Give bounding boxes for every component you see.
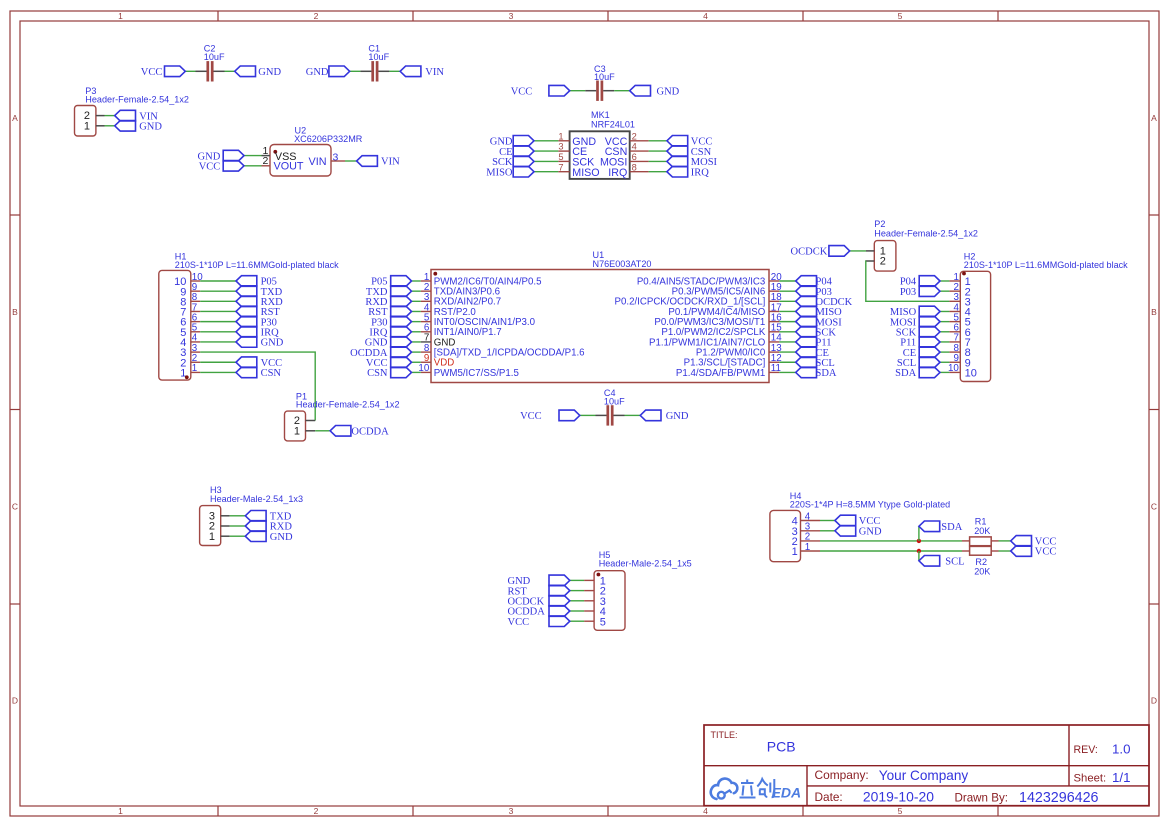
wire U1.12-SCL: [779, 361, 795, 363]
net flag VCC (U1 pin 9): [366, 357, 412, 369]
svg-text:TITLE:: TITLE:: [711, 730, 738, 740]
net flag GND (right of C2): [235, 66, 282, 78]
net flag OCDCK (H5 pin 3): [508, 596, 570, 608]
net flag VCC (left of C3): [511, 85, 570, 97]
svg-text:210S-1*10P L=11.6MMGold-plated: 210S-1*10P L=11.6MMGold-plated black: [175, 260, 339, 270]
svg-text:20K: 20K: [974, 567, 990, 577]
svg-text:10uF: 10uF: [594, 72, 615, 82]
svg-text:2019-10-20: 2019-10-20: [863, 789, 934, 805]
svg-text:GND: GND: [270, 532, 293, 543]
svg-text:SDA: SDA: [816, 368, 837, 379]
svg-text:Header-Female-2.54_1x2: Header-Female-2.54_1x2: [296, 400, 400, 410]
net flag CE (U1 pin 13): [796, 347, 829, 359]
wire VCC-U1.9: [412, 361, 421, 363]
net flag VCC (H5 pin 5): [508, 616, 570, 628]
svg-text:CSN: CSN: [367, 368, 388, 379]
wire H1-CSN: [200, 371, 236, 373]
svg-text:VCC: VCC: [141, 67, 163, 78]
connector P1 Header-Female-2.54_1x2: [285, 391, 400, 441]
svg-text:8: 8: [632, 162, 637, 172]
wire H1-RXD: [200, 300, 236, 302]
net flag VCC (left of C4): [520, 410, 580, 422]
svg-text:3: 3: [509, 806, 514, 816]
wire U1.11-SDA: [779, 371, 795, 373]
capacitor C2 10uF: [196, 44, 225, 82]
connector P3 Header-Female-2.54_1x2: [75, 86, 189, 136]
svg-text:2: 2: [314, 11, 319, 21]
wire SDA-H2.10: [940, 371, 949, 373]
net flag VCC (U2 pin 2): [199, 161, 244, 173]
wire H4.2-R1: [820, 540, 962, 542]
svg-text:Header-Male-2.54_1x3: Header-Male-2.54_1x3: [210, 494, 303, 504]
svg-text:B: B: [12, 307, 18, 317]
net flag RXD (U1 pin 3): [365, 296, 411, 308]
net flag VIN (P3 pin 2): [115, 110, 159, 122]
resistor R1 20K: [962, 517, 999, 546]
svg-text:D: D: [1151, 696, 1157, 706]
wire H3.3-TXD: [230, 515, 246, 517]
svg-text:10uF: 10uF: [204, 52, 225, 62]
wire MISO-H2.4: [940, 310, 949, 312]
net flag OCDCK (U1 pin 18): [796, 296, 853, 308]
capacitor C4 10uF: [596, 388, 626, 425]
wire VCC-C4: [580, 414, 596, 416]
net flag OCDCK (P2 pin 1): [791, 246, 850, 258]
wire U1.20-P04: [779, 280, 795, 282]
net flag P05 (H1 pin 10): [236, 276, 277, 288]
svg-text:C: C: [1151, 502, 1157, 512]
wire P05-U1.1: [412, 280, 421, 282]
net flag GND (left of C1): [306, 66, 350, 78]
wire IRQ-U1.6: [412, 331, 421, 333]
connector H3 Header-Male-2.54_1x3: [200, 485, 303, 545]
net flag P03 (U1 pin 19): [796, 286, 832, 298]
svg-text:Company:: Company:: [815, 768, 869, 782]
wire U1.15-SCK: [779, 331, 795, 333]
net flag GND (U1 pin 7): [365, 337, 412, 349]
net flag GND (U2 pin 1): [198, 150, 244, 162]
net flag P30 (H1 pin 6): [236, 316, 277, 328]
wire P3.2-VIN: [105, 115, 115, 117]
wire P3.1-GND: [105, 125, 115, 127]
net flag SDA (H2 pin 10): [895, 367, 940, 379]
wire U2.3-VIN: [345, 160, 357, 162]
net flag MISO (H2 pin 4): [890, 306, 940, 318]
svg-text:2: 2: [314, 806, 319, 816]
svg-text:1/1: 1/1: [1112, 770, 1131, 785]
junction (SDA node): [917, 539, 921, 543]
svg-text:IRQ: IRQ: [691, 167, 710, 178]
svg-text:P1.4/SDA/FB/PWM1: P1.4/SDA/FB/PWM1: [676, 368, 765, 379]
voltage regulator U2 XC6206P332MR: [262, 126, 363, 176]
net flag TXD (U1 pin 2): [366, 286, 412, 298]
net flag P05 (U1 pin 1): [371, 276, 411, 288]
net flag MOSI (MK1 pin 6): [667, 156, 718, 168]
wire R2-VCC: [999, 550, 1011, 552]
svg-text:[SDA]/TXD_1/ICPDA/OCDDA/P1.6: [SDA]/TXD_1/ICPDA/OCDDA/P1.6: [434, 347, 585, 358]
net flag VCC (MK1 pin 2): [667, 136, 712, 148]
svg-text:A: A: [1151, 113, 1157, 123]
net flag VCC (R1): [1011, 536, 1057, 548]
wire C4-GND: [625, 414, 641, 416]
resistor R2 20K: [962, 546, 999, 576]
svg-text:1423296426: 1423296426: [1019, 790, 1099, 806]
net flag CSN (MK1 pin 4): [667, 146, 712, 158]
wire H4.4-VCC: [820, 520, 835, 522]
svg-text:VIN: VIN: [425, 67, 444, 78]
svg-text:SDA: SDA: [895, 368, 916, 379]
net flag MOSI (U1 pin 16): [796, 316, 843, 328]
net flag CSN (H1 pin 1): [236, 367, 281, 379]
svg-text:1: 1: [118, 11, 123, 21]
svg-text:VIN: VIN: [381, 157, 400, 168]
svg-text:REV:: REV:: [1074, 744, 1098, 756]
net flag OCDDA (H5 pin 4): [508, 606, 570, 618]
svg-text:OCDDA: OCDDA: [351, 427, 389, 438]
svg-text:PWM5/IC7/SS/P1.5: PWM5/IC7/SS/P1.5: [434, 368, 519, 379]
net flag IRQ (MK1 pin 8): [667, 166, 709, 178]
wire P04-H2.1: [940, 280, 949, 282]
svg-text:B: B: [1151, 307, 1157, 317]
net flag GND (H1 pin 4): [236, 337, 284, 349]
net flag P04 (U1 pin 20): [796, 276, 833, 288]
wire CSN-U1.10: [412, 371, 421, 373]
wire GND-C1: [350, 70, 361, 72]
wire TXD-U1.2: [412, 290, 421, 292]
wire U1.13-CE: [779, 351, 795, 353]
wire VCC-C2: [185, 70, 195, 72]
svg-text:6: 6: [632, 152, 637, 162]
svg-text:P2: P2: [874, 219, 885, 229]
wire U1.16-MOSI: [779, 321, 795, 323]
svg-text:OCDCK: OCDCK: [791, 247, 828, 258]
svg-text:Header-Male-2.54_1x5: Header-Male-2.54_1x5: [599, 559, 692, 569]
net flag GND (right of C4): [640, 410, 689, 422]
net flag SCL (H2 pin 9): [897, 357, 940, 369]
svg-text:1: 1: [792, 546, 798, 558]
junction (SCL node): [917, 549, 921, 553]
wire MOSI-H2.5: [940, 321, 949, 323]
svg-text:1: 1: [118, 806, 123, 816]
wire VCC-U2.2: [244, 165, 262, 167]
connector H2 210S-1*10P: [948, 252, 1128, 382]
net flag CE (MK1 pin 3): [499, 146, 534, 158]
wire P03-H2.2: [940, 290, 949, 292]
net flag GND (MK1 pin 1): [490, 136, 534, 148]
wire OCDCK-H5.3: [570, 600, 584, 602]
net flag VIN (U2 pin 3): [357, 156, 400, 168]
MCU U1 N76E003AT20: [418, 250, 782, 382]
net flag SCK (U1 pin 15): [796, 326, 837, 338]
svg-text:GND: GND: [258, 67, 281, 78]
svg-text:A: A: [12, 113, 18, 123]
svg-text:NRF24L01: NRF24L01: [591, 120, 635, 130]
svg-text:Header-Female-2.54_1x2: Header-Female-2.54_1x2: [874, 229, 978, 239]
net flag TXD (H3 pin 3): [245, 511, 291, 523]
net flag RXD (H3 pin 2): [245, 521, 292, 533]
connector H1 210S-1*10P: [159, 251, 339, 380]
wire MK1.8-IRQ: [649, 171, 667, 173]
svg-text:3: 3: [558, 142, 563, 152]
svg-text:VCC: VCC: [511, 86, 533, 97]
wire GND-U1.7: [412, 341, 421, 343]
svg-text:2: 2: [880, 256, 886, 268]
svg-text:10: 10: [965, 368, 977, 380]
net flag MISO (U1 pin 17): [796, 306, 842, 318]
wire C2-GND: [225, 70, 235, 72]
svg-text:MISO: MISO: [572, 167, 599, 179]
net flag P04 (H2 pin 1): [900, 276, 940, 288]
wire P30-U1.5: [412, 321, 421, 323]
wire H1-GND: [200, 341, 236, 343]
wire GND-MK1.1: [534, 140, 558, 142]
net flag P03 (H2 pin 2): [900, 286, 940, 298]
svg-text:CSN: CSN: [261, 368, 282, 379]
svg-text:3: 3: [509, 11, 514, 21]
net flag VIN (right of C1): [400, 66, 444, 78]
net flag SDA (U1 pin 11): [796, 367, 837, 379]
wire CE-H2.8: [940, 351, 949, 353]
net flag SDA: [919, 521, 963, 533]
svg-text:R2: R2: [975, 557, 987, 567]
svg-text:4: 4: [703, 806, 708, 816]
svg-text:GND: GND: [306, 67, 329, 78]
svg-text:XC6206P332MR: XC6206P332MR: [294, 134, 363, 144]
svg-text:P03: P03: [900, 287, 916, 298]
net flag OCDDA (P1 pin 1): [330, 426, 389, 438]
svg-text:MK1: MK1: [591, 110, 610, 120]
wire H1-IRQ: [200, 331, 236, 333]
wire SDA branch: [918, 526, 920, 541]
wire RST-H5.2: [570, 590, 584, 592]
net flag TXD (H1 pin 9): [236, 286, 283, 298]
wire MK1.2-VCC: [649, 140, 667, 142]
svg-text:MISO: MISO: [486, 167, 513, 178]
svg-text:PCB: PCB: [767, 739, 796, 755]
wire VCC-H5.5: [570, 620, 584, 622]
wire SCK-H2.6: [940, 331, 949, 333]
net flag SCL: [919, 556, 965, 568]
wire SCK-MK1.5: [534, 160, 558, 162]
net flag SCL (U1 pin 12): [796, 357, 835, 369]
svg-text:Date:: Date:: [815, 790, 843, 804]
wire GND-U2.1: [244, 155, 262, 157]
net flag P11 (U1 pin 14): [796, 337, 832, 349]
svg-text:Header-Female-2.54_1x2: Header-Female-2.54_1x2: [85, 95, 189, 105]
net flag VCC (R2): [1011, 546, 1057, 558]
svg-text:1: 1: [558, 131, 563, 141]
svg-text:VCC: VCC: [199, 162, 221, 173]
net flag RST (U1 pin 4): [368, 306, 411, 318]
wire OCDDA-H5.4: [570, 610, 584, 612]
net flag GND (H5 pin 1): [508, 575, 570, 587]
svg-text:GND: GND: [139, 122, 162, 133]
svg-text:SCL: SCL: [945, 557, 964, 568]
svg-text:Drawn By:: Drawn By:: [955, 792, 1008, 805]
net flag P11 (H2 pin 7): [900, 337, 940, 349]
svg-text:SDA: SDA: [941, 522, 962, 533]
connector P2 Header-Female-2.54_1x2: [866, 219, 978, 271]
svg-text:1.0: 1.0: [1112, 742, 1131, 757]
wire OCDCK-P2.1: [850, 250, 866, 252]
svg-text:4: 4: [703, 11, 708, 21]
svg-text:GND: GND: [859, 527, 882, 538]
svg-text:210S-1*10P L=11.6MMGold-plated: 210S-1*10P L=11.6MMGold-plated black: [964, 260, 1128, 270]
wire H1-RST: [200, 310, 236, 312]
net flag SCK (H2 pin 6): [896, 326, 940, 338]
svg-text:N76E003AT20: N76E003AT20: [593, 259, 652, 269]
wire VCC-C3: [570, 90, 586, 92]
svg-text:5: 5: [898, 806, 903, 816]
svg-text:GND: GND: [261, 338, 284, 349]
wire U1.19-P03: [779, 290, 795, 292]
svg-text:7: 7: [558, 162, 563, 172]
wire MISO-MK1.7: [534, 171, 558, 173]
net flag GND (right of C3): [630, 85, 680, 97]
wire C3-GND: [614, 90, 630, 92]
net flag RST (H5 pin 2): [508, 585, 570, 597]
net flag MISO (MK1 pin 7): [486, 166, 534, 178]
svg-text:Sheet:: Sheet:: [1074, 773, 1107, 785]
svg-text:2: 2: [632, 131, 637, 141]
svg-text:EDA: EDA: [772, 785, 802, 801]
wire H1-P30: [200, 321, 236, 323]
wire H3.1-GND: [230, 535, 246, 537]
svg-text:4: 4: [632, 142, 637, 152]
net flag VCC (H1 pin 2): [236, 357, 282, 369]
svg-text:Your Company: Your Company: [879, 768, 969, 783]
capacitor C1 10uF: [360, 44, 389, 82]
svg-text:10uF: 10uF: [368, 52, 389, 62]
wire SCL branch: [918, 551, 920, 561]
net flag CE (H2 pin 8): [903, 347, 940, 359]
wire U1.18-OCDCK: [779, 300, 795, 302]
wire H1-P05: [200, 280, 236, 282]
wire H3.2-RXD: [230, 525, 246, 527]
RF module MK1 NRF24L01: [558, 110, 648, 179]
net flag IRQ (H1 pin 5): [236, 326, 279, 338]
svg-text:20K: 20K: [974, 526, 990, 536]
net flag RST (H1 pin 7): [236, 306, 280, 318]
svg-text:VIN: VIN: [309, 156, 327, 168]
net flag P30 (U1 pin 5): [371, 316, 411, 328]
wire RST-U1.4: [412, 310, 421, 312]
wire P1.1-OCDDA: [315, 430, 330, 432]
svg-text:1: 1: [84, 120, 90, 132]
wire SCL-H2.9: [940, 361, 949, 363]
svg-text:VCC: VCC: [1035, 547, 1057, 558]
wire P11-H2.7: [940, 341, 949, 343]
net flag MOSI (H2 pin 5): [890, 316, 940, 328]
net flag RXD (H1 pin 8): [236, 296, 283, 308]
svg-text:IRQ: IRQ: [608, 167, 627, 179]
svg-text:1: 1: [294, 426, 300, 438]
wire MK1.6-MOSI: [649, 160, 667, 162]
connector H5 Header-Male-2.54_1x5: [584, 550, 692, 630]
svg-text:5: 5: [898, 11, 903, 21]
svg-text:5: 5: [558, 152, 563, 162]
wire P2.2-H2.3: [866, 261, 950, 301]
net flag VCC (left of C2): [141, 66, 185, 78]
wire H1-TXD: [200, 290, 236, 292]
capacitor C3 10uF: [585, 64, 615, 101]
wire H1.3-P1.2: [200, 352, 315, 420]
net flag OCDDA (U1 pin 8): [350, 347, 411, 359]
wire H4.1-R2: [820, 550, 962, 552]
net flag IRQ (U1 pin 6): [369, 326, 411, 338]
wire R1-VCC: [999, 540, 1011, 542]
wire U1.17-MISO: [779, 310, 795, 312]
wire H1-VCC: [200, 361, 236, 363]
net flag CSN (U1 pin 10): [367, 367, 411, 379]
svg-text:VCC: VCC: [508, 617, 530, 628]
wire GND-H5.1: [570, 579, 584, 581]
svg-text:VOUT: VOUT: [274, 160, 304, 172]
svg-text:GND: GND: [657, 86, 680, 97]
svg-text:220S-1*4P H=8.5MM Ytype Gold-p: 220S-1*4P H=8.5MM Ytype Gold-plated: [790, 499, 950, 509]
svg-text:10uF: 10uF: [604, 397, 625, 407]
wire RXD-U1.3: [412, 300, 421, 302]
net flag GND (H3 pin 1): [245, 531, 293, 543]
net flag SCK (MK1 pin 5): [492, 156, 534, 168]
svg-text:D: D: [12, 696, 18, 706]
svg-text:GND: GND: [666, 411, 689, 422]
svg-text:1: 1: [209, 531, 215, 543]
svg-text:5: 5: [600, 616, 606, 628]
wire OCDDA-U1.8: [412, 351, 421, 353]
wire CE-MK1.3: [534, 150, 558, 152]
svg-text:VCC: VCC: [520, 411, 542, 422]
net flag GND (P3 pin 1): [115, 121, 163, 133]
net flag GND (H4 pin 3): [835, 526, 882, 538]
net flag VCC (H4 pin 4): [835, 515, 880, 527]
connector H4 220S-1*4P: [770, 491, 950, 562]
svg-text:C: C: [12, 502, 18, 512]
wire H4.3-GND: [820, 530, 835, 532]
wire U1.14-P11: [779, 341, 795, 343]
wire MK1.4-CSN: [649, 150, 667, 152]
wire C1-VIN: [389, 70, 400, 72]
